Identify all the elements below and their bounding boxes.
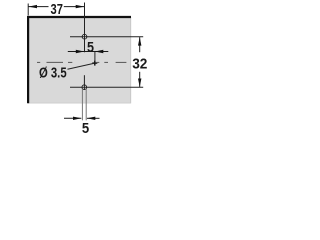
dim 5 bottom right arrow — [87, 117, 95, 120]
reference cross (hinge axis point) — [92, 62, 97, 64]
top hole vertical centerline — [84, 3, 86, 53]
panel (wood side, gray fill) — [28, 17, 131, 104]
dim 5 top right extension down to reference cross — [94, 52, 96, 64]
dim 37 line — [28, 6, 48, 8]
dim 37 extension line left — [27, 4, 29, 16]
dim 37 right arrow — [76, 5, 85, 8]
svg-text:Ø 3.5: Ø 3.5 — [39, 65, 67, 81]
dim 32 line — [139, 37, 141, 52]
dim 32 top arrow — [138, 37, 141, 46]
panel top edge — [27, 16, 131, 18]
svg-text:32: 32 — [132, 56, 147, 73]
dim 5 top left arrow — [76, 50, 84, 53]
dim 37 left arrow — [28, 5, 37, 8]
bottom hole vertical centerline — [83, 75, 85, 90]
dim 5 bottom left arrow — [73, 117, 81, 120]
screw hole bottom (Ø 3.5) — [82, 85, 87, 90]
svg-text:5: 5 — [87, 40, 94, 56]
panel left edge — [27, 16, 29, 103]
top hole horizontal centerline / ext to 32 dim — [70, 36, 143, 38]
dim 32 bottom arrow — [138, 79, 141, 88]
dim 5 top line — [68, 51, 84, 53]
svg-text:5: 5 — [82, 121, 89, 134]
leader line from Ø 3.5 label to cross — [68, 63, 95, 69]
dim 5 top right arrow — [95, 50, 103, 53]
screw hole top (Ø 3.5) — [82, 34, 87, 39]
bottom hole edge extension lines — [81, 89, 83, 120]
svg-text:37: 37 — [51, 2, 63, 18]
dim 5 bottom line — [64, 117, 81, 119]
horizontal dash-dot centerline — [37, 61, 126, 63]
bottom hole horizontal centerline / ext to 32 dim — [70, 86, 143, 88]
